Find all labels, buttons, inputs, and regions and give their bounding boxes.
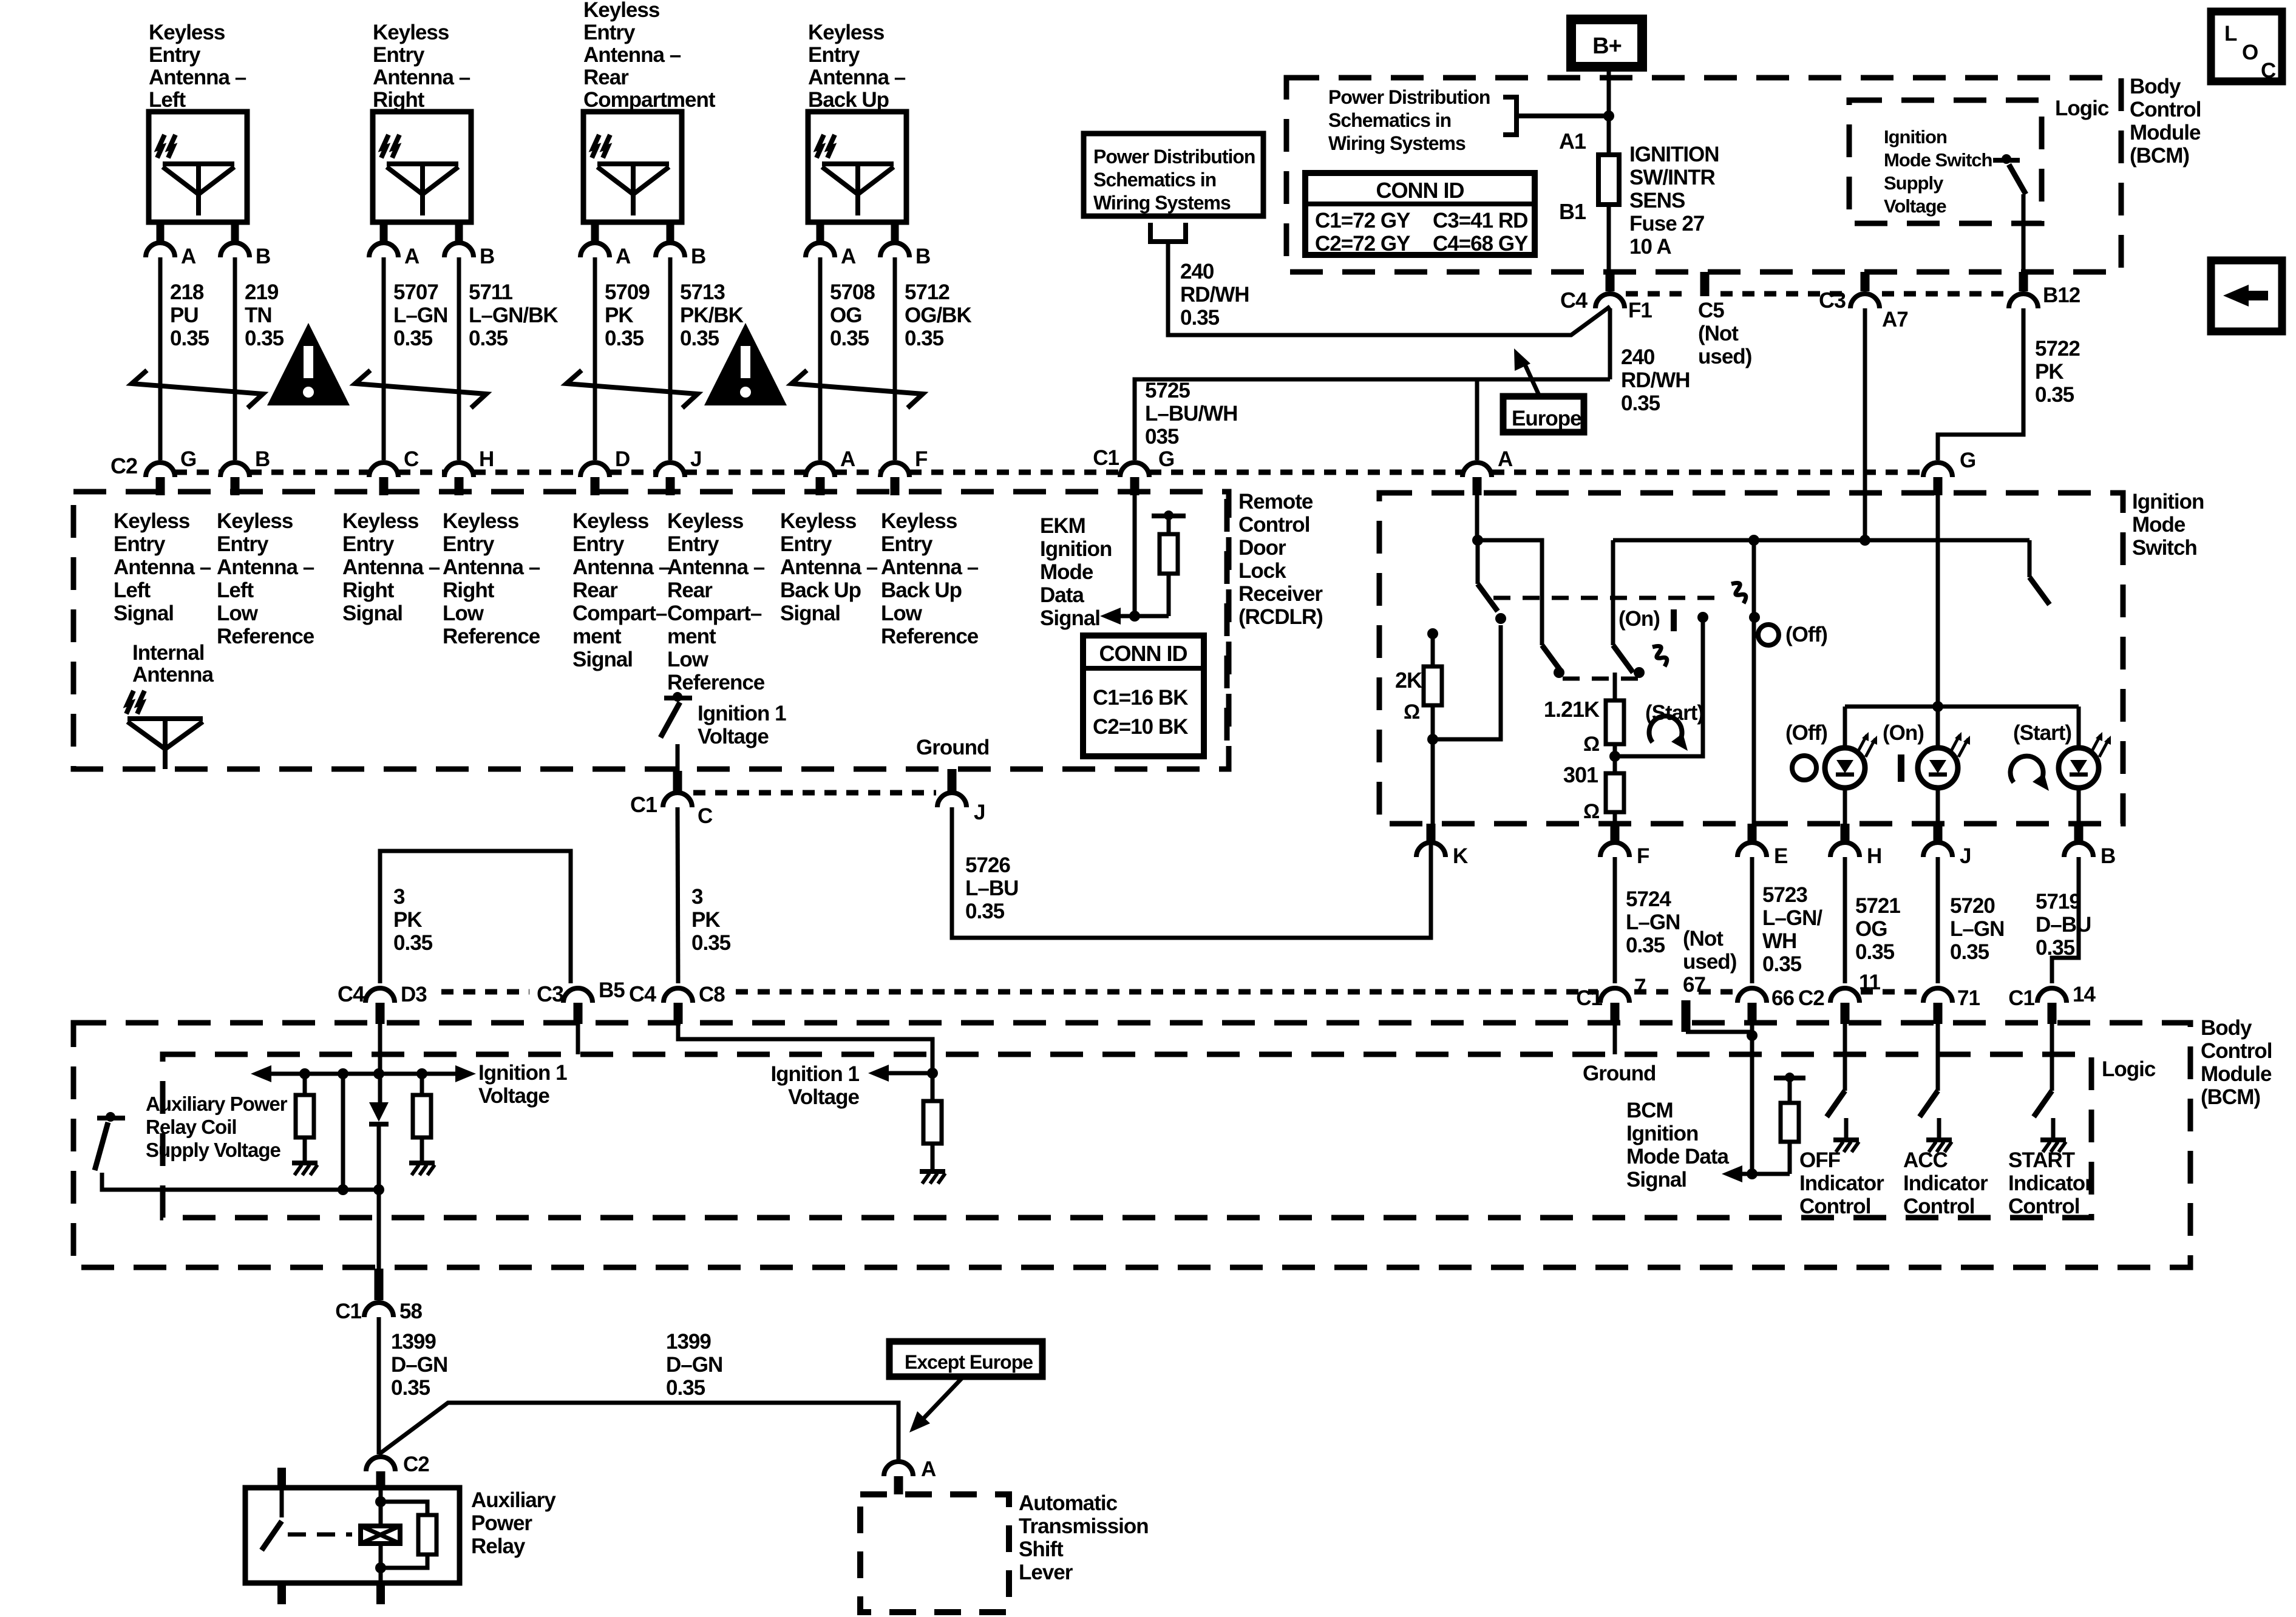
- svg-text:C1=16 BK: C1=16 BK: [1093, 686, 1188, 710]
- svg-text:PK: PK: [605, 303, 633, 327]
- svg-text:0.35: 0.35: [2036, 936, 2075, 960]
- svg-text:Compart–: Compart–: [572, 602, 667, 625]
- svg-text:Left: Left: [217, 578, 254, 602]
- wire 219 TN: [233, 257, 237, 460]
- connector C2 pin G: [146, 463, 175, 477]
- svg-text:G: G: [1960, 449, 1975, 472]
- svg-text:Voltage: Voltage: [788, 1085, 859, 1109]
- OFF indicator switch: [1843, 1024, 1847, 1091]
- svg-text:D3: D3: [401, 983, 427, 1006]
- bracket below box: [1150, 223, 1186, 242]
- branch to pole 2: [1478, 540, 1542, 645]
- svg-text:Voltage: Voltage: [698, 725, 769, 748]
- svg-text:Right: Right: [443, 578, 495, 602]
- CONN ID box (RCDLR): [1083, 636, 1204, 756]
- svg-text:H: H: [1867, 844, 1881, 868]
- svg-text:0.35: 0.35: [1855, 940, 1895, 964]
- svg-text:L–GN: L–GN: [1626, 910, 1680, 934]
- svg-text:PU: PU: [170, 303, 199, 327]
- svg-text:C3=41 RD: C3=41 RD: [1433, 209, 1527, 232]
- svg-text:Low: Low: [217, 602, 259, 625]
- wire 3 PK bridge D3-B5: [380, 851, 571, 983]
- ignition 1 voltage rail: [271, 1072, 455, 1076]
- svg-text:Ignition 1: Ignition 1: [770, 1062, 859, 1086]
- svg-text:Fuse 27: Fuse 27: [1629, 212, 1704, 236]
- LED start (B): [2059, 748, 2099, 788]
- svg-text:L–GN/: L–GN/: [1762, 906, 1822, 930]
- svg-text:Auxiliary: Auxiliary: [471, 1488, 556, 1512]
- svg-text:C: C: [2261, 59, 2276, 83]
- wire A7 down to bus: [1863, 308, 1867, 540]
- svg-text:Right: Right: [342, 578, 395, 602]
- wire 5723 L-GN/WH: [1750, 857, 1754, 983]
- svg-text:219: 219: [245, 280, 279, 304]
- svg-text:Entry: Entry: [149, 43, 201, 67]
- svg-text:Auxiliary Power: Auxiliary Power: [146, 1093, 288, 1115]
- wire 5712 OG/BK: [893, 257, 897, 460]
- Except Europe box: [889, 1341, 1042, 1377]
- bracket to B+ wire: [1503, 97, 1517, 135]
- svg-text:(Not: (Not: [1683, 927, 1724, 951]
- automatic transmission shift lever box (dashed): [860, 1494, 1009, 1612]
- ground wire from J(box1) up to K: [1429, 857, 1433, 938]
- svg-text:240: 240: [1180, 260, 1214, 283]
- warning triangle 2: [704, 323, 787, 405]
- wire 1399 D-GN main: [377, 1317, 381, 1454]
- contact dots row 2: [1554, 667, 1564, 678]
- connector pin G (IMS): [1923, 463, 1952, 477]
- CONN ID box (BCM): [1305, 173, 1535, 255]
- svg-text:Mode: Mode: [2132, 513, 2186, 537]
- svg-text:Antenna –: Antenna –: [808, 66, 906, 89]
- connector C4 pin F1: [1606, 272, 1615, 291]
- internal antenna symbol: [127, 716, 203, 721]
- svg-text:0.35: 0.35: [1950, 940, 1989, 964]
- A feed wire: [1475, 477, 1479, 540]
- svg-text:CONN ID: CONN ID: [1376, 178, 1464, 203]
- svg-text:Ground: Ground: [916, 736, 989, 759]
- svg-text:Supply Voltage: Supply Voltage: [146, 1139, 281, 1161]
- svg-text:0.35: 0.35: [469, 327, 508, 350]
- svg-text:Ignition 1: Ignition 1: [698, 702, 786, 725]
- connector pin C2 (relay): [366, 1457, 395, 1471]
- antenna symbol 1: [163, 161, 234, 166]
- middle ignition1 voltage arrow: [888, 1071, 932, 1076]
- svg-text:Switch: Switch: [2132, 536, 2197, 560]
- svg-text:used): used): [1683, 950, 1736, 974]
- svg-text:Ω: Ω: [1583, 733, 1599, 756]
- svg-text:Keyless: Keyless: [342, 509, 419, 533]
- C5 stub (not used): [1700, 272, 1710, 296]
- svg-text:Keyless: Keyless: [583, 0, 660, 22]
- svg-text:Antenna –: Antenna –: [114, 555, 211, 579]
- wire 5721 OG: [1843, 857, 1847, 983]
- svg-text:Supply: Supply: [1884, 172, 1944, 194]
- svg-text:Control: Control: [1238, 513, 1309, 537]
- svg-text:3: 3: [393, 885, 405, 909]
- svg-text:Entry: Entry: [808, 43, 860, 67]
- svg-text:5719: 5719: [2036, 890, 2080, 914]
- svg-text:Entry: Entry: [114, 532, 166, 556]
- svg-text:B: B: [255, 447, 270, 471]
- keyless entry antenna 4 box: [808, 112, 906, 222]
- svg-text:Reference: Reference: [217, 625, 314, 648]
- svg-text:C: C: [404, 447, 419, 471]
- svg-text:0.35: 0.35: [680, 327, 719, 350]
- connector C2 pin D: [580, 463, 610, 477]
- wire 5708 OG: [818, 257, 823, 460]
- svg-text:3: 3: [691, 885, 703, 909]
- connector C2 pin H: [444, 463, 474, 477]
- connector pin 71: [1923, 988, 1952, 1003]
- svg-text:C2: C2: [110, 453, 137, 478]
- svg-text:ment: ment: [667, 625, 716, 648]
- svg-text:Keyless: Keyless: [217, 509, 293, 533]
- svg-text:5713: 5713: [680, 280, 725, 304]
- svg-text:START: START: [2008, 1148, 2075, 1172]
- svg-text:Antenna –: Antenna –: [572, 555, 670, 579]
- svg-text:Antenna –: Antenna –: [881, 555, 979, 579]
- svg-text:Automatic: Automatic: [1019, 1491, 1118, 1515]
- svg-text:71: 71: [1957, 986, 1980, 1010]
- svg-text:Ω: Ω: [1583, 800, 1599, 823]
- solid box: Power Distribution Schematics in Wiring Systems: [1084, 134, 1263, 216]
- svg-text:Compart–: Compart–: [667, 602, 762, 625]
- pole 1 blade: [1478, 584, 1498, 611]
- svg-text:Signal: Signal: [1040, 606, 1100, 630]
- linkage dashes row 2: [1563, 677, 1639, 681]
- rail to bottom vertical: [338, 1068, 348, 1079]
- svg-text:58: 58: [399, 1300, 422, 1323]
- pin stub B antenna 4: [891, 222, 899, 241]
- svg-text:0.35: 0.35: [245, 327, 284, 350]
- connector B antenna 2: [444, 243, 474, 257]
- dashes A7..B12: [1882, 291, 2006, 297]
- svg-text:0.35: 0.35: [393, 327, 433, 350]
- middle resistor to ground: [923, 1101, 942, 1144]
- svg-text:5707: 5707: [393, 280, 438, 304]
- svg-text:Ω: Ω: [1404, 700, 1419, 724]
- pole 1 wire: [1476, 540, 1480, 584]
- wire F1 jog to A: [1477, 378, 1610, 382]
- svg-text:D–GN: D–GN: [391, 1353, 447, 1377]
- svg-text:Ignition: Ignition: [1040, 537, 1112, 561]
- svg-text:Reference: Reference: [667, 671, 765, 694]
- svg-text:Indicator: Indicator: [1799, 1171, 1884, 1195]
- pin stub B antenna 1: [231, 222, 239, 241]
- svg-text:IGNITION: IGNITION: [1629, 143, 1719, 166]
- svg-text:Keyless: Keyless: [881, 509, 957, 533]
- wire 5707 L–GN: [382, 257, 386, 460]
- svg-text:SENS: SENS: [1629, 189, 1685, 212]
- svg-text:Antenna –: Antenna –: [149, 66, 246, 89]
- svg-text:L: L: [2224, 22, 2237, 46]
- LOC box: [2211, 12, 2282, 81]
- svg-text:C1: C1: [335, 1300, 361, 1323]
- bus2 right blade: [2029, 577, 2050, 605]
- svg-text:Antenna: Antenna: [132, 663, 214, 686]
- svg-text:(BCM): (BCM): [2201, 1085, 2260, 1109]
- svg-text:C4=68 GY: C4=68 GY: [1433, 232, 1528, 256]
- svg-text:Back Up: Back Up: [780, 578, 861, 602]
- svg-text:Control: Control: [2008, 1195, 2079, 1218]
- svg-text:Signal: Signal: [342, 602, 402, 625]
- svg-text:H: H: [479, 447, 494, 471]
- svg-text:EKM: EKM: [1040, 514, 1085, 538]
- keyless entry antenna 1 box: [149, 112, 247, 222]
- svg-text:Europe: Europe: [1512, 407, 1581, 430]
- relay resistor branch: [381, 1502, 427, 1515]
- connector C2 pin J: [656, 463, 685, 477]
- svg-text:OG/BK: OG/BK: [905, 303, 971, 327]
- svg-text:B5: B5: [599, 978, 625, 1002]
- aux power relay coil switch: [106, 1112, 115, 1122]
- G wire down to LED bus: [1936, 477, 1940, 707]
- twisted pair symbol 2: [355, 370, 486, 408]
- svg-text:O: O: [2242, 41, 2258, 64]
- svg-text:Internal: Internal: [132, 641, 204, 665]
- svg-text:0.35: 0.35: [1626, 934, 1665, 957]
- svg-text:J: J: [690, 447, 701, 471]
- svg-text:TN: TN: [245, 303, 272, 327]
- svg-text:Keyless: Keyless: [780, 509, 857, 533]
- svg-text:5721: 5721: [1855, 894, 1900, 918]
- antenna symbol 4: [822, 161, 894, 166]
- svg-text:Body: Body: [2201, 1016, 2252, 1040]
- svg-text:5725: 5725: [1145, 379, 1190, 402]
- svg-text:Back Up: Back Up: [881, 578, 962, 602]
- bus2 horizontal: [1613, 538, 2029, 543]
- svg-text:L–BU/WH: L–BU/WH: [1145, 402, 1237, 425]
- svg-text:5724: 5724: [1626, 887, 1671, 911]
- wire 5720 L-GN: [1936, 857, 1940, 983]
- connector A antenna 3: [580, 243, 610, 257]
- BCM data signal arrow: [1741, 1172, 1790, 1176]
- svg-text:Control: Control: [1799, 1195, 1870, 1218]
- svg-text:Power Distribution: Power Distribution: [1093, 146, 1255, 168]
- svg-text:C3: C3: [1819, 288, 1846, 313]
- connector C2 pin C: [369, 463, 398, 477]
- (Off) circle icon row1: [1758, 625, 1779, 645]
- svg-text:0.35: 0.35: [605, 327, 644, 350]
- svg-text:Mode Switch: Mode Switch: [1884, 149, 1992, 171]
- svg-text:B: B: [256, 245, 270, 268]
- svg-text:Receiver: Receiver: [1238, 582, 1323, 606]
- svg-text:Left: Left: [114, 578, 151, 602]
- svg-text:G: G: [180, 447, 196, 471]
- svg-text:D–GN: D–GN: [666, 1353, 722, 1377]
- svg-text:Compartment: Compartment: [583, 88, 716, 112]
- svg-text:Antenna –: Antenna –: [373, 66, 470, 89]
- svg-text:L–GN/BK: L–GN/BK: [469, 303, 558, 327]
- svg-text:0.35: 0.35: [1762, 952, 1802, 976]
- svg-text:C: C: [698, 804, 713, 828]
- svg-text:Antenna –: Antenna –: [780, 555, 878, 579]
- svg-text:Control: Control: [2201, 1039, 2272, 1063]
- svg-text:Mode Data: Mode Data: [1626, 1145, 1730, 1168]
- svg-text:Entry: Entry: [373, 43, 425, 67]
- keyless entry antenna 2 box: [373, 112, 471, 222]
- wire 5713 PK/BK: [668, 257, 673, 460]
- start contact wire down to 1.21K junction: [1615, 617, 1703, 756]
- svg-text:C1=72 GY: C1=72 GY: [1315, 209, 1410, 232]
- svg-text:0.35: 0.35: [691, 931, 731, 955]
- svg-text:RD/WH: RD/WH: [1621, 368, 1690, 392]
- EKM signal wire + arrow: [1121, 614, 1169, 619]
- svg-text:A: A: [841, 245, 856, 268]
- svg-text:BCM: BCM: [1626, 1099, 1673, 1122]
- C8 wire into BCM + middle ignition1: [678, 1024, 932, 1073]
- svg-text:(On): (On): [1618, 607, 1660, 631]
- svg-text:Entry: Entry: [572, 532, 625, 556]
- box: keyless antenna signals (dashed): [73, 492, 1229, 769]
- svg-text:B: B: [2101, 844, 2115, 868]
- svg-text:A: A: [840, 447, 855, 471]
- pin stub A antenna 3: [591, 222, 599, 241]
- svg-text:1399: 1399: [391, 1330, 436, 1354]
- twisted pair symbol 4: [792, 370, 923, 408]
- IMS connector pin J: [1934, 824, 1943, 841]
- svg-text:Antenna –: Antenna –: [443, 555, 540, 579]
- svg-text:(Off): (Off): [1785, 623, 1827, 646]
- EKM resistor: [1164, 510, 1173, 520]
- warning triangle 1: [267, 323, 350, 405]
- 2K resistor branch: [1427, 628, 1438, 639]
- body control module box (dashed): [73, 1023, 2190, 1267]
- svg-text:Control: Control: [1903, 1195, 1974, 1218]
- antenna 2 lightning bolts: [381, 135, 389, 158]
- svg-text:Antenna –: Antenna –: [342, 555, 440, 579]
- svg-text:A: A: [181, 245, 196, 268]
- connector A antenna 2: [369, 243, 398, 257]
- RCDLR box left edge (dashed): [1224, 499, 1230, 759]
- fuse 27: [1598, 155, 1619, 205]
- svg-text:Keyless: Keyless: [572, 509, 649, 533]
- relay linkage dashes: [288, 1533, 352, 1537]
- svg-text:Rear: Rear: [572, 578, 618, 602]
- connector pin B12: [2019, 272, 2028, 291]
- keyless entry antenna 3 box: [583, 112, 682, 222]
- svg-text:Entry: Entry: [667, 532, 719, 556]
- ground stub + label (pin 7): [1613, 1024, 1617, 1054]
- B+ box: [1571, 19, 1642, 67]
- supply voltage switch: [2002, 154, 2011, 164]
- bus2 right pole: [2028, 540, 2032, 577]
- svg-text:Remote: Remote: [1238, 490, 1313, 514]
- svg-text:5709: 5709: [605, 280, 650, 304]
- svg-text:Wiring Systems: Wiring Systems: [1093, 192, 1231, 214]
- svg-text:Signal: Signal: [114, 602, 174, 625]
- Except Europe arrow: [924, 1377, 963, 1418]
- ignition 1 voltage switch (box1): [673, 692, 682, 702]
- svg-text:Antenna –: Antenna –: [583, 43, 681, 67]
- svg-text:Mode: Mode: [1040, 560, 1093, 584]
- svg-text:Keyless: Keyless: [667, 509, 744, 533]
- relay coil wire: [379, 1471, 383, 1526]
- svg-text:WH: WH: [1762, 929, 1796, 953]
- rail resistor (left): [299, 1068, 310, 1079]
- connector pin A (IMS): [1462, 463, 1492, 477]
- antenna 3 lightning bolts: [592, 135, 599, 158]
- svg-text:(BCM): (BCM): [2130, 144, 2189, 168]
- svg-text:C2: C2: [1798, 986, 1824, 1010]
- svg-text:(On): (On): [1883, 721, 1924, 745]
- Europe arrow: [1523, 359, 1540, 396]
- 1.21K resistor: [1613, 673, 1617, 700]
- svg-text:5720: 5720: [1950, 894, 1995, 918]
- connector C1 pin C: [673, 771, 682, 791]
- svg-text:Ignition: Ignition: [1884, 126, 1947, 147]
- squiggle row 2: [1652, 646, 1667, 666]
- relay coil (X box): [361, 1526, 400, 1544]
- svg-text:Signal: Signal: [1626, 1168, 1686, 1192]
- svg-text:CONN ID: CONN ID: [1099, 641, 1187, 666]
- svg-text:G: G: [1158, 447, 1174, 471]
- Europe box: [1503, 396, 1584, 432]
- connector C2 pin B: [220, 463, 250, 477]
- svg-text:A: A: [404, 245, 419, 268]
- svg-text:B+: B+: [1592, 33, 1622, 59]
- svg-text:Relay: Relay: [471, 1534, 526, 1558]
- svg-text:(Off): (Off): [1785, 721, 1827, 745]
- svg-text:C8: C8: [699, 983, 725, 1006]
- svg-text:Reference: Reference: [443, 625, 540, 648]
- svg-text:Ignition: Ignition: [2132, 490, 2204, 514]
- svg-text:C2=72 GY: C2=72 GY: [1315, 232, 1410, 256]
- svg-text:L–GN: L–GN: [1950, 917, 2004, 941]
- svg-text:0.35: 0.35: [2035, 383, 2074, 407]
- 2K junction to start column: [1427, 734, 1438, 745]
- svg-text:Lock: Lock: [1238, 559, 1286, 583]
- relay switch stub above box: [277, 1468, 286, 1488]
- twisted pair symbol 1: [132, 370, 263, 408]
- squiggle row 1: [1731, 583, 1746, 603]
- bus2 left pole: [1611, 540, 1615, 645]
- wire from C1/G down: [1133, 477, 1137, 616]
- svg-text:Shift: Shift: [1019, 1537, 1064, 1561]
- svg-text:C2=10 BK: C2=10 BK: [1093, 715, 1188, 739]
- antenna 4 lightning bolts: [817, 135, 824, 158]
- B5 wire into BCM: [576, 1024, 580, 1054]
- 67 stub (not used): [1682, 1000, 1691, 1032]
- wire 5726 L-BU: [952, 807, 1431, 938]
- bus2 left blade: [1613, 645, 1633, 673]
- wire 5719 D-BU: [2052, 857, 2079, 983]
- svg-text:Power: Power: [471, 1511, 532, 1535]
- svg-text:E: E: [1774, 844, 1787, 868]
- 66 wire down to data signal: [1750, 1024, 1754, 1174]
- svg-text:Body: Body: [2130, 75, 2181, 98]
- svg-text:Entry: Entry: [583, 21, 636, 44]
- svg-text:5712: 5712: [905, 280, 949, 304]
- auxiliary power relay box: [245, 1488, 460, 1583]
- logic box (dashed): [163, 1054, 2091, 1218]
- svg-text:Rear: Rear: [583, 66, 629, 89]
- svg-text:Keyless: Keyless: [443, 509, 519, 533]
- wire 218 PU: [158, 257, 163, 460]
- rail resistor (right): [416, 1068, 427, 1079]
- IMS connector pin K: [1427, 824, 1436, 841]
- svg-text:Module: Module: [2130, 121, 2201, 144]
- svg-text:10 A: 10 A: [1629, 235, 1671, 259]
- E wire down: [1752, 540, 1756, 840]
- svg-text:Right: Right: [373, 88, 425, 112]
- svg-text:240: 240: [1621, 345, 1655, 369]
- svg-text:J: J: [974, 801, 985, 824]
- svg-text:(Start): (Start): [2013, 721, 2071, 745]
- svg-text:Module: Module: [2201, 1062, 2272, 1086]
- svg-text:Door: Door: [1238, 536, 1286, 560]
